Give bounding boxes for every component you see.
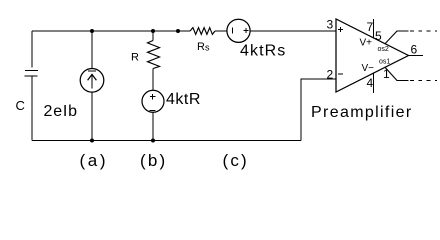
wire bottom rail <box>32 140 301 142</box>
resistor R <box>148 41 160 69</box>
svg-text:(a): (a) <box>80 151 109 170</box>
op-amp minus input sign <box>338 73 343 75</box>
wire Rs to source <box>215 30 228 32</box>
node junction top b <box>151 29 155 33</box>
svg-text:3: 3 <box>327 18 334 32</box>
wire left branch vertical <box>31 31 33 68</box>
svg-text:4ktRs: 4ktRs <box>240 43 286 60</box>
svg-text:R: R <box>197 41 205 53</box>
svg-text:V+: V+ <box>360 38 373 49</box>
svg-text:(b): (b) <box>140 151 167 170</box>
current source I1 <box>80 69 104 93</box>
pin 1 dashed lead <box>410 80 437 82</box>
svg-text:5: 5 <box>375 29 382 43</box>
resistor Rs <box>190 28 215 35</box>
voltage source 4ktR <box>142 90 164 112</box>
wire 4ktR source to bottom rail <box>152 112 154 140</box>
svg-text:4: 4 <box>367 76 374 90</box>
wire current-source branch bottom <box>91 92 93 141</box>
pin 7 V+ lead <box>372 19 374 38</box>
svg-text:1: 1 <box>383 67 390 81</box>
wire inverting input <box>301 79 336 141</box>
node junction bottom a <box>90 139 94 143</box>
pin 1 offset lead <box>385 67 397 80</box>
svg-text:os2: os2 <box>378 46 389 53</box>
pin 6 output wire <box>409 55 424 57</box>
svg-text:4ktR: 4ktR <box>166 91 201 108</box>
voltage source 4ktRs <box>227 19 250 42</box>
pin 5 dashed lead <box>410 30 437 32</box>
node junction bottom b <box>151 139 155 143</box>
wire source to op-amp pin3 <box>250 30 337 32</box>
pin 5 offset lead <box>385 31 397 44</box>
svg-text:s: s <box>205 43 210 53</box>
op-amp plus input sign <box>338 27 343 32</box>
wire top rail <box>32 30 190 32</box>
op-amp U1 triangle <box>336 19 409 92</box>
svg-text:6: 6 <box>411 43 418 57</box>
pin 4 V- lead <box>372 73 374 93</box>
node junction top a <box>90 29 94 33</box>
svg-text:R: R <box>131 52 139 64</box>
svg-text:Preamplifier: Preamplifier <box>311 104 413 121</box>
wire R to 4ktR source <box>152 69 154 91</box>
node junction top c <box>176 29 180 33</box>
svg-text:(c): (c) <box>223 151 249 170</box>
svg-text:2eIb: 2eIb <box>44 103 78 120</box>
svg-text:7: 7 <box>367 20 374 34</box>
capacitor C <box>25 71 39 77</box>
svg-text:2: 2 <box>327 68 334 82</box>
wire R branch top <box>152 31 154 41</box>
svg-text:os1: os1 <box>379 59 390 66</box>
svg-text:V−: V− <box>362 63 375 74</box>
svg-text:C: C <box>16 98 25 113</box>
wire current-source branch top <box>91 31 93 69</box>
wire below capacitor <box>31 77 33 141</box>
